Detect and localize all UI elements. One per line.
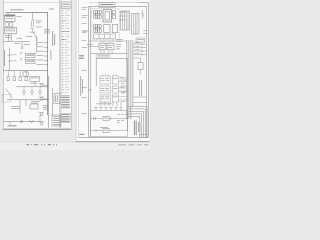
fuse F6 element — [10, 60, 16, 61]
switch SW4 — [40, 113, 43, 116]
left page sheet — [3, 0, 72, 129]
connector bracket C6 — [21, 59, 23, 61]
frame inner right vertical — [146, 7, 148, 138]
text above ticks — [96, 103, 112, 106]
footer right faint text — [118, 144, 149, 145]
left page bottom shadow — [3, 129, 72, 130]
bus tick branch 3 — [44, 51, 48, 53]
wire: main horizontal run y70.6 — [3, 70, 47, 72]
bus right branch 3 — [133, 50, 141, 52]
wire: diagonal — [33, 32, 37, 39]
junction block outline (dashed) — [92, 9, 119, 40]
wire: drop to fusible links — [32, 12, 34, 18]
connector C101 text — [6, 28, 16, 31]
relay cells cluster — [99, 43, 106, 50]
wire: diagonal feed — [6, 89, 13, 98]
wire ticks near B1 — [93, 117, 95, 120]
footer toolbar strip — [0, 142, 150, 150]
right schematic frame verticals — [88, 7, 90, 138]
splice labels — [14, 42, 20, 45]
module wire tick labels — [121, 82, 125, 85]
junction block title box — [99, 3, 115, 7]
wires to right edge row2 — [119, 88, 128, 91]
frame bottom rail — [79, 137, 149, 139]
fuse F5 element — [10, 54, 16, 55]
switch SW1 — [40, 84, 43, 87]
lower run labels — [31, 100, 40, 103]
module M1 dashed box — [3, 95, 11, 103]
comb left tick labels — [117, 113, 120, 116]
right margin dark block — [79, 55, 84, 135]
legend header text — [62, 2, 69, 5]
fusible link L1 — [30, 19, 33, 27]
ground G2 — [31, 91, 34, 94]
bus branch labels — [37, 41, 44, 44]
link L1 label — [36, 20, 42, 23]
lamp row: lamp E1 — [7, 77, 9, 81]
stair cross ticks — [139, 133, 148, 135]
rotated margin label — [3, 50, 6, 66]
rotated instrument label — [133, 121, 136, 136]
frame top right corner — [139, 1, 148, 3]
footer toolbar marks — [27, 144, 58, 145]
lamp E3 — [19, 77, 21, 81]
M3 text rows — [53, 115, 59, 118]
bus sublabels — [44, 28, 50, 31]
fuse block FB1 header bar — [5, 15, 16, 16]
bus tick branch 5 — [44, 59, 48, 61]
switch SW5 — [40, 122, 43, 125]
relay cell A — [5, 22, 8, 26]
module row 2 — [100, 86, 111, 93]
bus left ticks — [121, 79, 127, 81]
wire drop to relay — [25, 71, 27, 72]
module M10 — [138, 63, 143, 70]
right page sheet — [76, 0, 150, 141]
module row1 text — [101, 77, 104, 80]
schematic frame top border (faint) — [3, 1, 60, 3]
wire: feed bus horizontal — [6, 11, 48, 13]
schematic title text — [10, 8, 24, 11]
wire riser joining cluster — [39, 115, 41, 122]
fuse F5 label box — [26, 53, 36, 57]
cluster bottom ticks — [100, 50, 102, 54]
feed label — [87, 43, 93, 46]
branch terminals — [141, 43, 143, 45]
rotated mid-right label — [138, 80, 141, 96]
rotated bus labels — [51, 31, 54, 46]
wire: horizontal at 41.4 — [3, 40, 30, 42]
frame drop lines — [96, 58, 127, 60]
wire: feed into cluster — [89, 46, 99, 48]
connector pin grid left — [94, 11, 102, 33]
rotated label second pair — [137, 122, 140, 132]
switch SW3 — [20, 121, 22, 123]
relay R1 box — [23, 72, 29, 76]
bus 2 vertical — [48, 76, 50, 128]
wire: lower horizontal run — [7, 99, 49, 101]
wire stubs to cells — [6, 20, 8, 23]
left label rail — [78, 0, 80, 138]
wire comb bundle stair-step — [129, 106, 147, 137]
wire: below links — [30, 28, 34, 30]
lower module outline — [91, 111, 128, 136]
wire drops from run — [23, 87, 25, 91]
wire tick near B2 — [95, 129, 97, 132]
right page bottom shadow — [76, 141, 150, 142]
splice node S2 — [21, 47, 23, 49]
relay R3 label — [31, 77, 39, 80]
bus right branch 1 — [133, 43, 141, 45]
ground G3 — [39, 91, 42, 94]
branch tails — [142, 43, 146, 45]
fuse F6 text — [27, 60, 35, 63]
inline box labels — [104, 117, 108, 120]
fuse F6 label box — [26, 59, 36, 63]
wire: fuse block drop — [7, 12, 9, 14]
bus rating label — [49, 8, 54, 11]
bus tick branch 1 — [44, 42, 48, 44]
M2 rotated text — [54, 95, 57, 102]
wire labels left — [5, 34, 11, 37]
bus tick branch 2 — [44, 46, 48, 48]
wire: riser x37 with ticks — [36, 36, 38, 53]
resistor R2 — [29, 120, 34, 122]
legend row texture left page — [62, 10, 70, 93]
bus right branch 5 — [133, 57, 141, 59]
caption outline — [96, 55, 110, 58]
wire: lower horizontal 2 — [91, 130, 128, 132]
link L2 label — [36, 26, 42, 29]
inline box B2 — [103, 128, 109, 132]
legend table header box — [62, 2, 70, 8]
wire labels above bus — [117, 38, 123, 41]
connector block C3 — [132, 14, 139, 34]
relay cell labels — [100, 44, 105, 47]
fuse block FB1 text — [6, 15, 14, 18]
connector pin grid right — [104, 11, 118, 33]
fuse row cells — [94, 34, 116, 38]
frame top faint rule — [89, 1, 139, 3]
wire: mid horizontal run — [16, 86, 49, 88]
branch labels — [135, 41, 140, 44]
lamp E4 — [25, 77, 27, 81]
relay cell B — [10, 22, 13, 26]
diode label — [137, 38, 144, 41]
wire: lower horizontal 1 — [91, 118, 128, 120]
bus tick branch 4 — [44, 55, 48, 57]
wires to right edge row1 — [119, 78, 128, 82]
connector tick row — [95, 108, 123, 111]
wire: drop x22 to node — [21, 41, 23, 46]
bus right branch 2 — [133, 47, 141, 49]
wire corner stubs — [143, 31, 147, 34]
module row 1 — [100, 74, 128, 102]
frame gauge label — [88, 89, 91, 92]
wire: relay R3 drop — [34, 81, 36, 87]
ground stems — [23, 93, 25, 95]
fuse F5 text — [27, 54, 35, 57]
connector C101 — [5, 27, 17, 33]
module row3 text — [101, 96, 104, 99]
module M3 box — [52, 115, 61, 126]
component cluster box — [30, 104, 38, 109]
resistor R10 — [142, 10, 144, 19]
relay K1 box — [103, 10, 111, 22]
wire: mid horizontal — [91, 53, 128, 55]
fuse block FB1 — [5, 15, 16, 22]
fusible link L2 — [32, 19, 35, 27]
lamp E2 — [13, 77, 15, 81]
right page margin labels (sparse faint) — [82, 7, 88, 114]
wire riser x52.5 — [52, 88, 54, 116]
ground G1 — [23, 91, 26, 94]
connector block C2 — [121, 11, 130, 30]
schematic frame left border — [2, 0, 4, 128]
node A: main bus vertical — [47, 12, 49, 115]
module pin ticks top — [103, 74, 117, 76]
module M2 box — [54, 94, 60, 104]
wire gauge labels — [17, 37, 23, 40]
cluster top ticks — [100, 41, 102, 43]
wire: bottom horizontal run — [3, 121, 40, 123]
wire: right horizontals — [133, 96, 147, 98]
connector bracket C5 — [21, 53, 23, 55]
junction block bottom rail — [89, 40, 127, 42]
cluster caption — [97, 55, 109, 58]
module row 3 — [100, 95, 111, 102]
legend darker entries — [62, 21, 70, 41]
wire: parallel risers below connector — [8, 34, 10, 42]
relay R3 box — [30, 76, 40, 81]
wire: stub left of fuses — [8, 54, 11, 56]
wire risers — [19, 100, 21, 114]
cluster side labels — [116, 43, 121, 46]
module row2 text — [101, 87, 104, 90]
bus right branch 4 — [133, 54, 141, 56]
legend boxed block — [62, 113, 71, 122]
pin drop wires — [100, 102, 102, 107]
legend note block — [61, 96, 69, 109]
bus tick branch 6 — [44, 64, 48, 66]
switch SW2 — [40, 98, 43, 101]
schematic frame right double border — [59, 0, 61, 128]
wire stubs to lamps — [7, 71, 9, 77]
frame top rail — [89, 6, 147, 8]
transmission label — [8, 124, 17, 127]
wire: left riser — [9, 48, 11, 71]
wire drop — [9, 122, 11, 125]
right bus verticals — [126, 40, 128, 119]
wires to right edge row3 — [119, 97, 128, 100]
inline box B1 — [103, 116, 109, 120]
rotated margin label right page — [80, 76, 83, 96]
wires out of junction block — [119, 11, 126, 13]
diode box D1 — [136, 38, 145, 42]
junction block title — [101, 4, 114, 5]
